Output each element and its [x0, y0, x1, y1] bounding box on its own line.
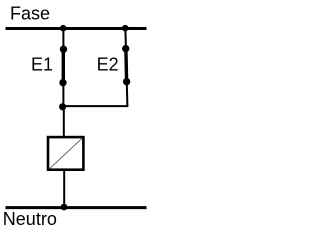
svg-text:Neutro: Neutro — [3, 209, 57, 229]
svg-text:E1: E1 — [31, 54, 53, 74]
svg-text:Fase: Fase — [10, 3, 50, 23]
svg-text:E2: E2 — [97, 54, 119, 74]
